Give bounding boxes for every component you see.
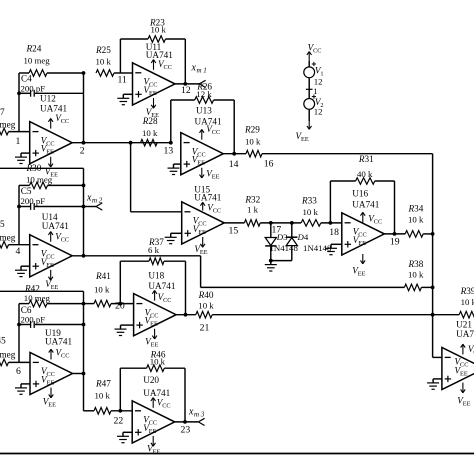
svg-text:10 k: 10 k <box>151 25 167 35</box>
svg-text:m 1: m 1 <box>197 67 207 75</box>
op-amp U21 VEE label <box>457 396 470 408</box>
node 23 label <box>181 424 191 435</box>
ground U18 <box>115 325 134 335</box>
source V1 <box>304 67 315 78</box>
svg-text:CC: CC <box>150 312 158 319</box>
resistor R31 <box>356 178 375 185</box>
ground diodes <box>265 261 277 271</box>
svg-text:R25: R25 <box>95 45 111 55</box>
wire input resistor tail to U19 pin 6 <box>0 359 30 366</box>
capacitor C5 label <box>21 186 46 206</box>
svg-text:CC: CC <box>163 297 171 304</box>
svg-text:EE: EE <box>150 321 158 328</box>
ground U14 <box>15 266 30 276</box>
terminal x_m3 <box>198 418 204 425</box>
op-amp U11 inside labels <box>144 77 158 97</box>
wire U14 entry from left <box>0 168 84 256</box>
resistor R41 label <box>94 271 111 295</box>
svg-text:CC: CC <box>313 47 321 54</box>
op-amp U14 VCC label <box>55 231 69 243</box>
resistor R24 label <box>24 44 51 66</box>
terminal x_m2 label <box>86 193 103 205</box>
op-amp U15 ref label <box>194 184 221 202</box>
svg-text:10 k: 10 k <box>96 57 112 67</box>
node 19 label <box>390 236 400 247</box>
op-amp U20 VEE label <box>147 443 160 455</box>
svg-text:R38: R38 <box>408 259 424 269</box>
op-amp U14 inside labels <box>41 248 55 268</box>
wire node 20 input <box>84 303 134 305</box>
terminal x_m1 <box>199 80 205 87</box>
op-amp U13 VCC label <box>206 124 220 136</box>
svg-text:EE: EE <box>149 428 157 435</box>
op-amp U18 VCC label <box>158 292 172 304</box>
resistor R29 label <box>244 125 261 147</box>
svg-text:6 k: 6 k <box>148 245 160 255</box>
svg-text:CC: CC <box>198 221 206 228</box>
wire node 19 <box>384 232 434 236</box>
svg-text:18: 18 <box>329 227 339 238</box>
wire input resistor tail to U14 pin 4 <box>0 241 30 248</box>
op-amp U14 VEE label <box>45 279 58 291</box>
op-amp U11 ref label <box>146 42 173 60</box>
diode D3 value label <box>270 243 299 253</box>
svg-text:R32: R32 <box>244 194 260 204</box>
op-amp U13 power arrows <box>200 129 205 178</box>
wire U19 entry from left <box>0 291 84 411</box>
wire U12 feedback right vertical <box>82 71 86 145</box>
op-amp U12 ref label <box>40 94 67 114</box>
svg-text:22: 22 <box>114 416 124 427</box>
svg-text:EE: EE <box>151 341 159 348</box>
svg-text:1: 1 <box>16 136 21 147</box>
svg-text:10 k: 10 k <box>94 285 110 295</box>
wire node 2 branch to U15 <box>129 141 182 212</box>
op-amp U15 power arrows <box>200 202 205 247</box>
resistor R25 <box>96 70 133 77</box>
op-amp U12 power arrows <box>48 118 53 167</box>
resistor R26 label <box>196 82 212 100</box>
op-amp U15 inside labels <box>193 216 207 236</box>
svg-text:EE: EE <box>46 262 54 269</box>
source V1 plus <box>312 62 316 66</box>
op-amp U21 power arrows <box>461 344 466 393</box>
wire input resistor tail to U12 pin 1 <box>0 128 30 135</box>
resistor R23 <box>148 36 166 43</box>
svg-text:CC: CC <box>149 420 157 427</box>
svg-text:12: 12 <box>181 85 191 96</box>
op-amp U16 VCC label <box>368 214 382 226</box>
svg-text:C4: C4 <box>21 74 32 84</box>
ground U12 <box>15 153 30 163</box>
ground U20 <box>117 432 132 442</box>
wire V1 to V2 <box>308 78 310 99</box>
svg-text:D4: D4 <box>297 232 309 242</box>
svg-text:10 k: 10 k <box>198 300 214 310</box>
svg-text:U13: U13 <box>196 106 212 116</box>
op-amp U15 VEE label <box>194 244 207 256</box>
diode D4 label <box>297 232 309 242</box>
svg-text:10 k: 10 k <box>142 128 158 138</box>
svg-text:R47: R47 <box>95 379 111 389</box>
svg-text:10 k: 10 k <box>245 137 261 147</box>
svg-text:EE: EE <box>358 240 366 247</box>
svg-text:13: 13 <box>164 145 174 156</box>
source V1 label <box>314 65 324 86</box>
svg-text:CC: CC <box>61 118 69 125</box>
wire VCC to V1 <box>308 61 310 67</box>
svg-text:10 k: 10 k <box>150 356 166 366</box>
wire node 14 to node 16 <box>223 152 432 358</box>
node 16 label <box>264 159 274 170</box>
op-amp U13 <box>181 133 224 175</box>
svg-text:meg: meg <box>0 120 16 130</box>
source V2 <box>304 99 315 110</box>
svg-text:200 pF: 200 pF <box>21 314 46 324</box>
node 20 label <box>115 301 125 312</box>
op-amp U19 power arrows <box>49 349 54 398</box>
svg-text:15: 15 <box>229 225 239 236</box>
op-amp U20 <box>132 401 175 443</box>
op-amp U11 VCC label <box>158 59 172 71</box>
wire R46 feedback <box>118 368 187 424</box>
svg-text:UA741: UA741 <box>148 281 175 291</box>
node 22 label <box>114 416 124 427</box>
resistor R28 <box>141 139 158 146</box>
svg-text:CC: CC <box>149 82 157 89</box>
svg-text:EE: EE <box>358 271 366 278</box>
resistor R27 partial label <box>0 107 16 130</box>
node 12 label <box>181 85 191 96</box>
svg-text:R33: R33 <box>301 196 317 206</box>
svg-text:UA741: UA741 <box>195 117 222 127</box>
wire R23 feedback <box>120 39 185 84</box>
op-amp U19 ref label <box>45 328 72 347</box>
svg-text:EE: EE <box>149 90 157 97</box>
svg-text:EE: EE <box>46 149 54 156</box>
op-amp U13 VEE label <box>206 169 219 181</box>
op-amp U20 ref label <box>143 375 170 398</box>
resistor R37 <box>149 258 164 265</box>
op-amp U20 power arrows <box>151 398 156 447</box>
resistor R-left2 partial label <box>0 219 16 243</box>
wire node to U21 input <box>433 356 442 358</box>
svg-text:R30: R30 <box>26 163 42 173</box>
resistor R33 label <box>301 196 318 218</box>
capacitor C4 <box>17 90 83 97</box>
wire U12 feedback left vertical <box>18 73 20 132</box>
op-amp U14 power arrows <box>48 232 53 281</box>
svg-text:UA741: UA741 <box>42 221 69 231</box>
op-amp U14 <box>30 235 72 277</box>
op-amp U16 ref label <box>352 189 379 210</box>
svg-text:23: 23 <box>181 424 191 435</box>
svg-text:R39: R39 <box>460 286 474 296</box>
wire diode bottoms <box>269 259 292 263</box>
op-amp U20 VCC label <box>157 398 171 410</box>
svg-text:R29: R29 <box>244 125 260 135</box>
svg-text:CC: CC <box>164 64 172 71</box>
svg-text:m 3: m 3 <box>194 410 205 418</box>
node 2 label <box>80 146 85 157</box>
svg-text:UA741: UA741 <box>143 388 170 398</box>
svg-text:UA741: UA741 <box>194 192 221 202</box>
svg-text:U18: U18 <box>148 271 164 281</box>
resistor R34 label <box>408 204 424 225</box>
svg-text:21: 21 <box>200 322 210 333</box>
figure frame line <box>0 453 474 455</box>
svg-text:U16: U16 <box>352 189 368 199</box>
op-amp U18 ref label <box>148 271 175 291</box>
svg-text:meg: meg <box>0 350 16 360</box>
op-amp U15 VCC label <box>207 203 221 215</box>
resistor R46 label <box>150 349 166 366</box>
wire U19 output <box>73 372 86 376</box>
VCC power symbol <box>307 42 322 61</box>
resistor R37 label <box>148 237 164 255</box>
svg-text:UA741: UA741 <box>40 103 67 113</box>
resistor R25 label <box>95 45 111 67</box>
source V2 label <box>314 97 324 117</box>
svg-text:R24: R24 <box>26 44 42 54</box>
capacitor C5 <box>17 203 85 210</box>
wire node 12 output <box>175 82 199 86</box>
node 17 <box>269 221 281 236</box>
svg-text:CC: CC <box>213 208 221 215</box>
svg-text:R40: R40 <box>198 290 214 300</box>
node 6 <box>16 366 21 377</box>
svg-text:EE: EE <box>301 136 309 143</box>
op-amp U12 VEE label <box>45 166 58 178</box>
svg-text:10 k: 10 k <box>408 270 424 280</box>
svg-text:CC: CC <box>212 129 220 136</box>
svg-text:CC: CC <box>46 253 54 260</box>
wire U19 feedback left vertical <box>18 304 20 363</box>
ground U15 <box>165 233 182 243</box>
op-amp U16 <box>342 213 385 255</box>
resistor R47 <box>94 408 111 415</box>
source V2 plus <box>312 95 316 99</box>
resistor R24 <box>19 70 84 77</box>
capacitor C6 <box>17 321 85 328</box>
op-amp U18 VEE label <box>145 336 158 348</box>
svg-text:CC: CC <box>46 140 54 147</box>
resistor R26 <box>195 97 214 104</box>
resistor R32 <box>244 220 260 227</box>
svg-text:EE: EE <box>460 370 468 377</box>
terminal x_m3 label <box>188 406 205 418</box>
svg-text:4: 4 <box>16 246 21 257</box>
diode D3 <box>265 223 276 261</box>
svg-text:EE: EE <box>51 284 59 291</box>
resistor R32 label <box>244 194 260 214</box>
op-amp U18 power arrows <box>152 290 157 339</box>
svg-text:11: 11 <box>118 75 127 86</box>
svg-text:40 k: 40 k <box>357 169 373 179</box>
op-amp U12 <box>30 122 72 164</box>
svg-text:5: 5 <box>0 219 5 229</box>
wire R26 feedback <box>169 100 234 154</box>
node 1 <box>16 136 21 147</box>
node 4 <box>16 246 21 257</box>
resistor R42 label <box>24 283 51 303</box>
wire node 2 <box>72 142 171 144</box>
svg-text:U20: U20 <box>143 375 159 385</box>
wire node 23 output <box>175 421 199 423</box>
resistor R29 <box>246 150 262 157</box>
resistor R38 <box>404 284 421 291</box>
resistor R31 label <box>357 154 374 179</box>
resistor R33 <box>301 220 321 227</box>
op-amp U12 inside labels <box>41 135 55 155</box>
op-amp U19 VEE label <box>43 397 56 409</box>
node 13 label <box>164 145 174 156</box>
svg-text:EE: EE <box>197 160 205 167</box>
node 15 label <box>229 225 239 236</box>
op-amp U19 VCC label <box>56 347 70 359</box>
svg-text:EE: EE <box>48 402 56 409</box>
resistor R28 label <box>142 116 158 138</box>
resistor R40 <box>196 311 212 318</box>
op-amp U16 VEE label <box>352 266 365 278</box>
node 14 label <box>229 159 239 170</box>
resistor R41 <box>94 300 111 307</box>
svg-text:10 meg: 10 meg <box>24 56 51 66</box>
ground U13 <box>168 164 181 174</box>
wire node 15 to node 18 <box>224 222 342 224</box>
wire node 22 input <box>84 410 133 412</box>
op-amp U21 ref label <box>456 320 474 339</box>
op-amp U18 inside labels <box>145 307 159 327</box>
svg-text:CC: CC <box>61 352 69 359</box>
resistor R23 label <box>149 18 166 35</box>
svg-text:10 meg: 10 meg <box>26 175 53 185</box>
resistor R30 <box>19 182 85 189</box>
svg-text:10 k: 10 k <box>303 207 319 217</box>
node 18 label <box>329 227 339 238</box>
svg-text:12: 12 <box>314 76 323 86</box>
resistor R47 label <box>95 379 112 401</box>
op-amp U20 inside labels <box>143 415 157 435</box>
ground U16 <box>325 244 342 254</box>
svg-text:16: 16 <box>264 159 274 170</box>
diode D3 label <box>276 232 288 242</box>
svg-text:10 k: 10 k <box>461 297 474 307</box>
svg-text:EE: EE <box>151 112 159 119</box>
resistor R30 label <box>26 163 53 185</box>
diode D4 <box>286 221 297 261</box>
op-amp U21 inside labels <box>455 356 469 377</box>
VEE power symbol <box>296 121 312 143</box>
svg-text:12 k: 12 k <box>196 89 212 99</box>
svg-text:UA741: UA741 <box>45 337 72 347</box>
diode D4 value label <box>303 243 332 253</box>
node 21 label <box>200 322 210 333</box>
svg-text:UA741: UA741 <box>146 50 173 60</box>
svg-text:EE: EE <box>463 401 471 408</box>
resistor R42 <box>19 300 85 307</box>
svg-text:CC: CC <box>460 361 468 368</box>
resistor R40 label <box>198 290 215 311</box>
svg-text:EE: EE <box>198 229 206 236</box>
svg-text:7: 7 <box>0 107 5 117</box>
svg-text:1N4148: 1N4148 <box>270 243 299 253</box>
svg-text:200 pF: 200 pF <box>21 196 46 206</box>
op-amp U14 ref label <box>42 212 69 231</box>
op-amp U12 VCC label <box>55 113 69 125</box>
svg-text:EE: EE <box>212 174 220 181</box>
op-amp U19 inside labels <box>41 366 55 386</box>
svg-text:6: 6 <box>16 366 21 377</box>
wire node 21 <box>176 313 459 317</box>
node tick between sources <box>306 86 318 96</box>
svg-text:C5: C5 <box>21 186 32 196</box>
svg-text:EE: EE <box>47 380 55 387</box>
resistor R34 <box>405 231 423 238</box>
svg-text:10 k: 10 k <box>408 215 424 225</box>
svg-text:U12: U12 <box>40 94 56 104</box>
svg-text:R42: R42 <box>24 283 40 293</box>
ground U19 <box>15 384 30 394</box>
terminal x_m1 label <box>191 63 207 75</box>
ground U21 <box>427 379 442 389</box>
wire U14 feedback left vertical <box>18 185 20 244</box>
op-amp U16 power arrows <box>361 212 366 263</box>
op-amp U19 <box>30 352 73 394</box>
svg-text:CC: CC <box>358 232 366 239</box>
svg-text:12: 12 <box>314 107 323 117</box>
op-amp U11 <box>133 63 176 105</box>
op-amp U21 <box>442 347 474 389</box>
op-amp U21 VCC label <box>468 344 474 356</box>
node 11 <box>118 75 127 86</box>
svg-text:2: 2 <box>80 146 85 157</box>
op-amp U13 ref label <box>195 106 222 127</box>
wire R37 feedback <box>118 261 187 316</box>
svg-text:CC: CC <box>374 219 382 226</box>
resistor R39 label <box>460 286 474 307</box>
svg-text:CC: CC <box>47 371 55 378</box>
svg-text:UA741: UA741 <box>456 329 474 339</box>
svg-text:14: 14 <box>229 159 239 170</box>
resistor R-left3 partial label <box>0 336 16 360</box>
op-amp U16 inside labels <box>353 227 367 247</box>
svg-text:200 pF: 200 pF <box>21 84 46 94</box>
svg-text:R34: R34 <box>408 204 424 214</box>
op-amp U11 power arrows <box>151 60 156 109</box>
op-amp U15 <box>182 202 225 244</box>
svg-text:UA741: UA741 <box>352 199 379 209</box>
svg-text:meg: meg <box>0 233 16 243</box>
wire R31 feedback <box>329 181 397 236</box>
capacitor C4 label <box>21 74 46 94</box>
op-amp U13 inside labels <box>192 146 206 166</box>
svg-text:10 k: 10 k <box>95 391 111 401</box>
svg-text:CC: CC <box>162 403 170 410</box>
wire V2 to VEE <box>308 109 310 121</box>
svg-text:10 meg: 10 meg <box>24 293 51 303</box>
terminal x_m2 <box>84 203 103 210</box>
resistor R39 <box>459 311 474 318</box>
ground U11 <box>117 94 132 104</box>
svg-text:19: 19 <box>390 236 400 247</box>
svg-text:R41: R41 <box>95 271 111 281</box>
resistor R46 <box>147 365 165 372</box>
op-amp U11 VEE label <box>146 107 159 119</box>
svg-text:CC: CC <box>197 151 205 158</box>
op-amp U18 <box>134 294 177 336</box>
svg-text:1 k: 1 k <box>247 205 259 215</box>
